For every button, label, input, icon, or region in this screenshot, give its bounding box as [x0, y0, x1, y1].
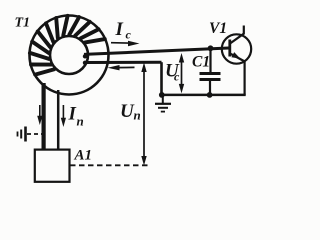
svg-text:I: I [115, 19, 124, 40]
svg-text:A1: A1 [74, 148, 93, 164]
svg-text:I: I [68, 104, 77, 125]
svg-text:c: c [174, 70, 180, 84]
svg-text:V1: V1 [209, 20, 227, 37]
svg-text:C1: C1 [192, 54, 210, 71]
svg-text:п: п [77, 114, 84, 129]
svg-text:T1: T1 [15, 16, 31, 31]
svg-text:c: c [126, 28, 132, 42]
svg-text:п: п [134, 108, 141, 123]
